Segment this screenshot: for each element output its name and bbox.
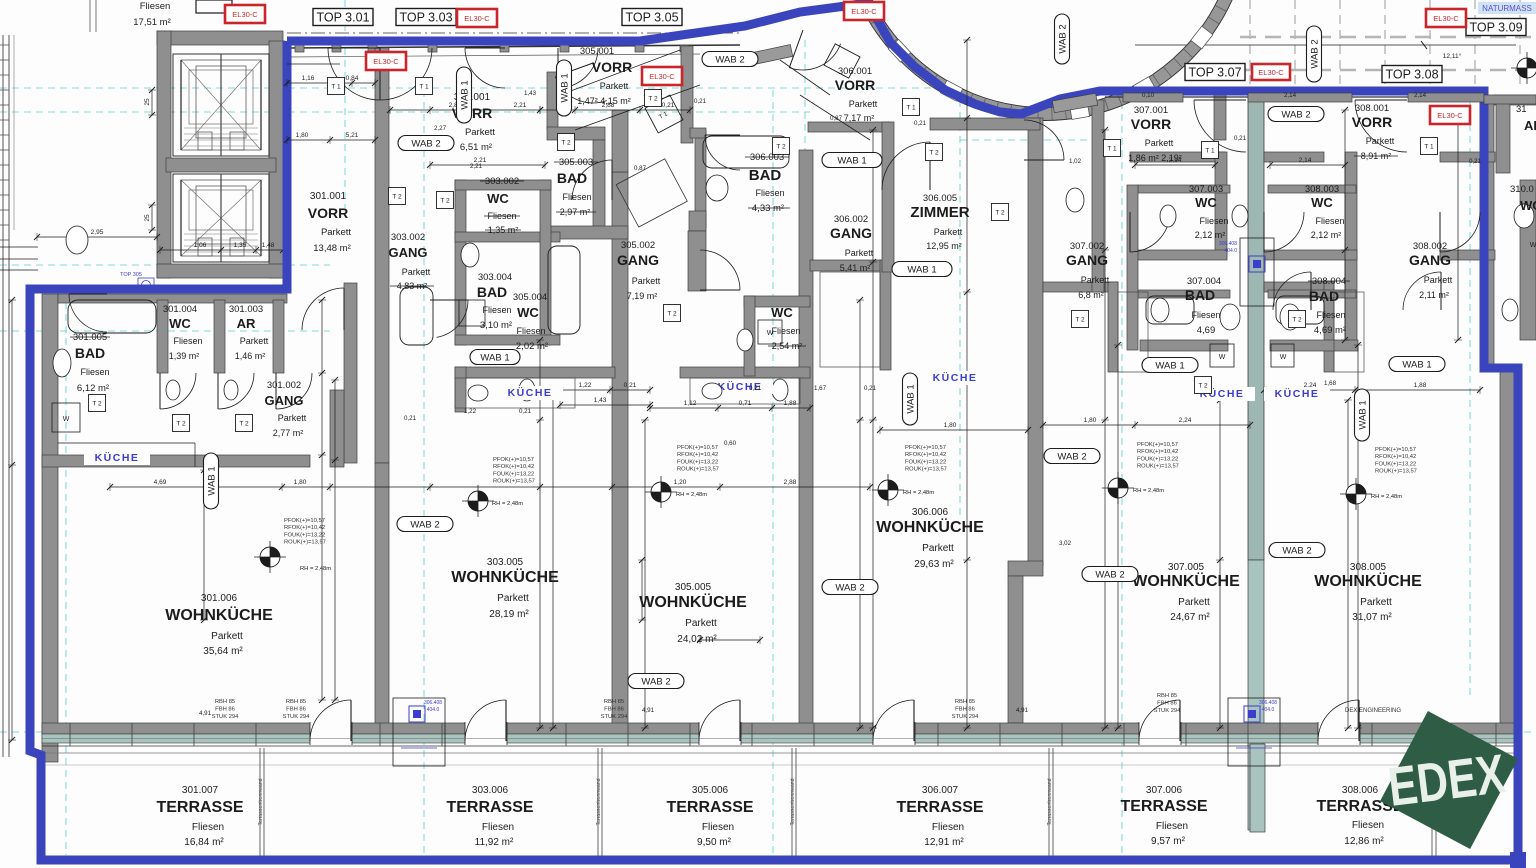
svg-text:TERRASSE: TERRASSE	[156, 799, 243, 816]
svg-text:2,12 m²: 2,12 m²	[1311, 230, 1342, 240]
svg-text:0,21: 0,21	[914, 120, 927, 127]
svg-text:WAB 2: WAB 2	[835, 583, 864, 594]
svg-text:VORR: VORR	[308, 205, 348, 221]
svg-text:Fliesen: Fliesen	[1352, 820, 1384, 831]
svg-text:RFOK(+)=10,42: RFOK(+)=10,42	[1137, 449, 1178, 455]
svg-text:RFOK(+)=10,42: RFOK(+)=10,42	[493, 464, 534, 470]
svg-text:Parkett: Parkett	[685, 618, 717, 629]
svg-text:12,95 m²: 12,95 m²	[926, 241, 962, 251]
svg-text:9,50 m²: 9,50 m²	[697, 837, 732, 848]
307 area walls	[1092, 100, 1104, 292]
svg-text:RFOK(+)=10,42: RFOK(+)=10,42	[284, 525, 325, 531]
svg-text:WC: WC	[169, 316, 191, 331]
svg-text:Fliesen: Fliesen	[192, 822, 224, 833]
svg-text:7,19 m²: 7,19 m²	[627, 291, 658, 301]
svg-text:FOUK(+)=13,22: FOUK(+)=13,22	[1137, 456, 1178, 462]
T boxes	[328, 78, 345, 95]
TOP boxes	[313, 9, 373, 26]
red EL30-C boxes	[225, 5, 265, 23]
svg-text:24,67 m²: 24,67 m²	[1170, 612, 1210, 623]
svg-text:W: W	[63, 416, 70, 423]
upper band partitions 303/305	[455, 180, 466, 345]
svg-text:WOHNKÜCHE: WOHNKÜCHE	[1314, 571, 1422, 590]
window sill lines on terraces	[42, 752, 1516, 754]
svg-text:2,27: 2,27	[434, 125, 447, 132]
svg-text:EL30-C: EL30-C	[649, 72, 675, 81]
svg-text:ROUK(+)=13,57: ROUK(+)=13,57	[1137, 464, 1179, 470]
svg-text:TOP 3.08: TOP 3.08	[1385, 68, 1438, 82]
svg-text:Fliesen: Fliesen	[173, 336, 202, 346]
big circular building arc top center	[846, 0, 1244, 114]
svg-text:301.006: 301.006	[201, 593, 238, 604]
svg-text:0,84: 0,84	[346, 75, 359, 82]
svg-text:6,8 m²: 6,8 m²	[1078, 290, 1104, 300]
svg-text:RBH 85: RBH 85	[215, 699, 235, 705]
306 area walls	[690, 128, 706, 138]
svg-text:Fliesen: Fliesen	[1156, 821, 1188, 832]
svg-text:4,91: 4,91	[199, 710, 212, 717]
svg-text:305.003: 305.003	[559, 157, 593, 168]
svg-text:2,12 m²: 2,12 m²	[1195, 230, 1226, 240]
light gray dashed grid top right (upper storey)	[1249, 0, 1251, 88]
svg-text:TOP 3.07: TOP 3.07	[1188, 66, 1241, 80]
svg-text:3,10 m²: 3,10 m²	[480, 320, 512, 331]
svg-text:Fliesen: Fliesen	[140, 1, 171, 12]
svg-text:25: 25	[144, 98, 151, 106]
svg-text:1,80: 1,80	[1084, 417, 1097, 424]
svg-text:1,22: 1,22	[464, 408, 477, 415]
svg-text:TERRASSE: TERRASSE	[666, 799, 753, 816]
svg-text:4,91: 4,91	[642, 707, 655, 714]
svg-text:1,68: 1,68	[1324, 380, 1337, 387]
svg-text:Fliesen: Fliesen	[932, 822, 964, 833]
svg-text:1,88: 1,88	[1414, 382, 1427, 389]
svg-text:WOHNKÜCHE: WOHNKÜCHE	[876, 517, 984, 536]
svg-text:4,69: 4,69	[154, 479, 167, 486]
svg-text:WAB 2: WAB 2	[1281, 110, 1310, 121]
svg-text:5,41 m²: 5,41 m²	[840, 263, 871, 273]
svg-text:FOUK(+)=13,22: FOUK(+)=13,22	[493, 471, 534, 477]
svg-text:Terrassentrennwand: Terrassentrennwand	[258, 778, 264, 825]
svg-text:FBH 86: FBH 86	[1157, 701, 1177, 707]
svg-text:404.0: 404.0	[1224, 248, 1237, 254]
svg-text:STUK 294: STUK 294	[601, 714, 629, 720]
svg-text:6,51 m²: 6,51 m²	[460, 142, 492, 153]
svg-text:305.004: 305.004	[513, 292, 547, 303]
svg-text:GANG: GANG	[265, 393, 304, 408]
svg-text:Parkett: Parkett	[240, 336, 269, 346]
svg-text:AR: AR	[237, 316, 256, 331]
svg-text:VORR: VORR	[1352, 114, 1392, 130]
svg-text:Parkett: Parkett	[845, 248, 874, 258]
svg-text:Fliesen: Fliesen	[1315, 216, 1344, 226]
svg-text:306.007: 306.007	[922, 785, 959, 796]
svg-text:WAB 2: WAB 2	[411, 139, 440, 150]
unit entry doors top	[328, 48, 380, 100]
svg-text:WC: WC	[487, 191, 509, 206]
svg-text:303.005: 303.005	[487, 557, 524, 568]
svg-text:307.001: 307.001	[1134, 105, 1168, 116]
svg-text:2,21: 2,21	[470, 163, 483, 170]
svg-text:2,02 m²: 2,02 m²	[516, 341, 548, 352]
svg-text:2,24: 2,24	[1179, 417, 1192, 424]
svg-text:307.003: 307.003	[1189, 184, 1223, 195]
long dimension lines vertical	[321, 300, 323, 700]
svg-text:KÜCHE: KÜCHE	[933, 371, 978, 384]
svg-text:13,48 m²: 13,48 m²	[313, 243, 351, 254]
svg-text:RBH 85: RBH 85	[955, 699, 975, 705]
svg-text:KÜCHE: KÜCHE	[508, 386, 553, 399]
svg-text:ZIMMER: ZIMMER	[910, 204, 969, 221]
svg-text:35,64 m²: 35,64 m²	[203, 646, 243, 657]
svg-text:303.002: 303.002	[391, 232, 425, 243]
NATURMASSE highlight top right	[1478, 2, 1536, 14]
svg-text:WAB 1: WAB 1	[480, 353, 509, 364]
svg-text:308.003: 308.003	[1305, 184, 1339, 195]
svg-text:RFOK(+)=10,42: RFOK(+)=10,42	[905, 452, 946, 458]
svg-text:W: W	[1530, 242, 1536, 249]
svg-text:Fliesen: Fliesen	[482, 822, 514, 833]
svg-text:VORR: VORR	[592, 59, 632, 75]
svg-text:0,60: 0,60	[724, 440, 737, 447]
svg-text:Parkett: Parkett	[1424, 275, 1453, 285]
svg-text:4,33 m²: 4,33 m²	[752, 203, 784, 214]
svg-text:301.003: 301.003	[229, 304, 263, 315]
WAB stadium labels	[398, 136, 454, 151]
svg-text:RFOK(+)=10,42: RFOK(+)=10,42	[677, 452, 718, 458]
svg-text:2,88: 2,88	[784, 479, 797, 486]
svg-text:NATURMASS: NATURMASS	[1482, 4, 1532, 13]
svg-text:Fliesen: Fliesen	[1199, 216, 1228, 226]
svg-text:301.004: 301.004	[163, 304, 197, 315]
svg-text:Parkett: Parkett	[600, 81, 629, 91]
svg-text:TERRASSE: TERRASSE	[446, 799, 533, 816]
svg-text:RH = 2,48m: RH = 2,48m	[492, 501, 523, 507]
svg-text:0,21: 0,21	[624, 382, 637, 389]
svg-text:T 1: T 1	[419, 84, 429, 91]
svg-text:1,47² 4,15 m²: 1,47² 4,15 m²	[577, 96, 631, 106]
svg-text:WAB 1: WAB 1	[207, 466, 218, 495]
svg-text:WAB 2: WAB 2	[410, 520, 439, 531]
svg-text:Parkett: Parkett	[465, 127, 495, 138]
svg-text:WAB 1: WAB 1	[1155, 361, 1184, 372]
svg-text:Parkett: Parkett	[1145, 138, 1174, 148]
svg-text:Parkett: Parkett	[934, 227, 963, 237]
svg-text:FOUK(+)=13,22: FOUK(+)=13,22	[1375, 461, 1416, 467]
svg-text:ROUK(+)=13,57: ROUK(+)=13,57	[284, 540, 326, 546]
svg-text:303.004: 303.004	[478, 272, 512, 283]
svg-text:0,21: 0,21	[519, 408, 532, 415]
angled gray wall chips along curve + right flat wall	[747, 45, 793, 66]
svg-text:301.002: 301.002	[267, 380, 301, 391]
svg-text:307.002: 307.002	[1070, 241, 1104, 252]
svg-text:6,12 m²: 6,12 m²	[77, 383, 109, 394]
svg-text:0,71: 0,71	[739, 400, 752, 407]
svg-text:WC: WC	[517, 305, 539, 320]
svg-text:24,02 m²: 24,02 m²	[677, 634, 717, 645]
svg-text:TOP 3.09: TOP 3.09	[1469, 21, 1522, 35]
svg-text:RBH 85: RBH 85	[604, 699, 624, 705]
svg-text:GANG: GANG	[617, 252, 659, 268]
svg-text:2,14: 2,14	[1284, 92, 1297, 99]
svg-text:T 1: T 1	[1424, 144, 1434, 151]
svg-text:Fliesen: Fliesen	[80, 367, 109, 377]
svg-text:0,10: 0,10	[1142, 92, 1155, 99]
shaft detail with blue square on wall V8	[1240, 238, 1274, 306]
svg-text:Parkett: Parkett	[922, 543, 954, 554]
svg-text:0,87: 0,87	[830, 115, 843, 122]
svg-text:305.001: 305.001	[580, 46, 614, 57]
svg-text:308.004: 308.004	[1312, 276, 1346, 287]
svg-text:306.408: 306.408	[1259, 700, 1277, 706]
svg-text:Terrassentrennwand: Terrassentrennwand	[1047, 778, 1053, 825]
svg-text:404.0: 404.0	[427, 707, 440, 713]
svg-text:KÜCHE: KÜCHE	[95, 451, 140, 464]
svg-text:Parkett: Parkett	[632, 276, 661, 286]
svg-text:BAD: BAD	[557, 170, 587, 186]
svg-text:Parkett: Parkett	[849, 99, 878, 109]
svg-text:WAB 2: WAB 2	[1282, 546, 1311, 557]
svg-text:BAD: BAD	[1309, 288, 1339, 304]
svg-text:WAB 1: WAB 1	[837, 156, 866, 167]
lift shaft block top-left	[157, 31, 283, 45]
svg-text:T 1: T 1	[1205, 148, 1215, 155]
svg-text:306.006: 306.006	[912, 507, 949, 518]
svg-text:1,22: 1,22	[579, 382, 592, 389]
svg-text:WAB 1: WAB 1	[1358, 400, 1369, 429]
svg-text:WOHNKÜCHE: WOHNKÜCHE	[1132, 571, 1240, 590]
svg-text:1,20: 1,20	[674, 479, 687, 486]
svg-text:RH = 2,48m: RH = 2,48m	[903, 490, 934, 496]
svg-text:5,21: 5,21	[346, 132, 359, 139]
svg-text:FBH 86: FBH 86	[215, 707, 235, 713]
svg-text:TOP 3.01: TOP 3.01	[316, 11, 369, 25]
bottom exterior wall band with windows	[42, 723, 1516, 734]
svg-text:0,21: 0,21	[404, 415, 417, 422]
svg-text:WAB 2: WAB 2	[1095, 570, 1124, 581]
svg-text:301.005: 301.005	[73, 332, 107, 343]
svg-text:4,91: 4,91	[1016, 707, 1029, 714]
svg-text:FBH 86: FBH 86	[955, 707, 975, 713]
svg-text:303.002: 303.002	[485, 176, 519, 187]
svg-text:PFOK(+)=10,57: PFOK(+)=10,57	[677, 445, 718, 451]
svg-text:Parkett: Parkett	[278, 413, 307, 423]
svg-text:T 2: T 2	[776, 144, 786, 151]
svg-text:306.001: 306.001	[838, 66, 872, 77]
staircase left edge	[2, 35, 4, 757]
svg-text:T 2: T 2	[667, 311, 677, 318]
svg-text:1,46 m²: 1,46 m²	[235, 351, 266, 361]
svg-text:Terrassentrennwand: Terrassentrennwand	[596, 778, 602, 825]
svg-text:308.005: 308.005	[1350, 562, 1387, 573]
svg-text:Parkett: Parkett	[1366, 136, 1395, 146]
svg-text:EL30-C: EL30-C	[232, 10, 258, 19]
svg-text:WC: WC	[1311, 195, 1333, 210]
svg-text:WAB 2: WAB 2	[1310, 39, 1321, 68]
svg-text:RH = 2,48m: RH = 2,48m	[1371, 494, 1402, 500]
svg-text:WAB 2: WAB 2	[1058, 24, 1069, 53]
svg-text:T 2: T 2	[929, 150, 939, 157]
svg-text:1,16: 1,16	[302, 75, 315, 82]
svg-text:RBH 85: RBH 85	[286, 699, 306, 705]
svg-text:RH = 2,48m: RH = 2,48m	[300, 566, 331, 572]
svg-text:WOHNKÜCHE: WOHNKÜCHE	[639, 592, 747, 611]
svg-text:T 2: T 2	[1075, 317, 1085, 324]
svg-text:3,02: 3,02	[1059, 540, 1072, 547]
svg-text:2,77 m²: 2,77 m²	[273, 428, 304, 438]
svg-text:TERRASSE: TERRASSE	[896, 799, 983, 816]
svg-text:31: 31	[1516, 104, 1527, 115]
svg-text:1,43: 1,43	[594, 397, 607, 404]
top corridor wall under blue line	[287, 45, 740, 48]
svg-text:EL30-C: EL30-C	[1437, 111, 1463, 120]
svg-text:4,69 m²: 4,69 m²	[1314, 325, 1346, 336]
misc interior doors	[437, 300, 468, 337]
svg-text:WAB 1: WAB 1	[460, 80, 471, 109]
svg-text:11,92 m²: 11,92 m²	[475, 837, 514, 848]
svg-text:306.408: 306.408	[1219, 241, 1237, 247]
svg-text:EL30-C: EL30-C	[851, 7, 877, 16]
svg-text:RFOK(+)=10,42: RFOK(+)=10,42	[1375, 454, 1416, 460]
svg-text:28,19 m²: 28,19 m²	[489, 609, 529, 620]
svg-text:EL30-C: EL30-C	[464, 14, 490, 23]
svg-text:WOHNKÜCHE: WOHNKÜCHE	[451, 567, 559, 586]
svg-text:RBH 85: RBH 85	[1157, 693, 1177, 699]
svg-text:308.006: 308.006	[1342, 785, 1379, 796]
svg-text:BAD: BAD	[1185, 287, 1215, 303]
KÜCHE labels	[84, 451, 150, 465]
svg-text:WAB 2: WAB 2	[1057, 452, 1086, 463]
svg-text:2,11 m²: 2,11 m²	[1419, 290, 1449, 300]
svg-text:T 2: T 2	[1198, 383, 1208, 390]
svg-text:ROUK(+)=13,57: ROUK(+)=13,57	[1375, 469, 1417, 475]
svg-text:306.002: 306.002	[834, 214, 868, 225]
svg-text:WAB 1: WAB 1	[906, 384, 917, 413]
svg-text:FBH 86: FBH 86	[604, 707, 624, 713]
svg-text:RH = 2,48m: RH = 2,48m	[1133, 488, 1164, 494]
svg-text:25: 25	[144, 214, 151, 222]
svg-text:31,07 m²: 31,07 m²	[1352, 612, 1392, 623]
svg-text:ROUK(+)=13,57: ROUK(+)=13,57	[905, 467, 947, 473]
301 interior doors	[160, 373, 196, 409]
right edge rooms beyond blue	[1494, 95, 1536, 105]
svg-text:12,86 m²: 12,86 m²	[1344, 836, 1384, 847]
svg-text:FOUK(+)=13,22: FOUK(+)=13,22	[677, 459, 718, 465]
svg-text:T 1: T 1	[1107, 146, 1117, 153]
svg-text:T 2: T 2	[239, 421, 249, 428]
svg-text:2,14: 2,14	[1299, 157, 1312, 164]
svg-text:305.002: 305.002	[621, 240, 655, 251]
svg-text:STUK 294: STUK 294	[283, 714, 311, 720]
entry vestibule 305/306 angled linework	[616, 159, 687, 227]
svg-text:TOP 3.05: TOP 3.05	[625, 11, 678, 25]
svg-text:WAB 2: WAB 2	[715, 55, 744, 66]
svg-text:4,69: 4,69	[1197, 325, 1216, 336]
svg-text:0,21: 0,21	[662, 102, 675, 109]
horizontal dimension chains	[110, 486, 330, 488]
svg-text:305.006: 305.006	[692, 785, 729, 796]
svg-text:0,21: 0,21	[1234, 135, 1247, 142]
svg-text:12,11°: 12,11°	[1443, 52, 1462, 60]
svg-text:1,88: 1,88	[784, 400, 797, 407]
svg-text:T 1: T 1	[906, 105, 916, 112]
main vertical walls	[375, 48, 389, 463]
svg-text:PFOK(+)=10,57: PFOK(+)=10,57	[493, 457, 534, 463]
svg-text:STUK 294: STUK 294	[952, 714, 980, 720]
svg-text:306.005: 306.005	[923, 193, 957, 204]
svg-text:Parkett: Parkett	[497, 593, 529, 604]
svg-text:Fliesen: Fliesen	[562, 192, 591, 202]
svg-text:DEX ENGINEERING: DEX ENGINEERING	[1345, 708, 1401, 714]
svg-text:1,80: 1,80	[296, 132, 309, 139]
svg-text:2,21: 2,21	[514, 102, 527, 109]
svg-text:12,91 m²: 12,91 m²	[924, 837, 964, 848]
svg-text:WAB 1: WAB 1	[560, 73, 571, 102]
svg-text:EL30-C: EL30-C	[373, 57, 399, 66]
svg-text:307.004: 307.004	[1187, 276, 1221, 287]
svg-text:W: W	[1219, 354, 1226, 361]
svg-text:ROUK(+)=13,57: ROUK(+)=13,57	[493, 479, 535, 485]
svg-text:KÜCHE: KÜCHE	[1275, 387, 1320, 400]
svg-text:EL30-C: EL30-C	[1433, 14, 1459, 23]
svg-text:GANG: GANG	[1409, 252, 1451, 268]
svg-text:301.007: 301.007	[182, 785, 219, 796]
svg-text:1,86 m² 2,19²: 1,86 m² 2,19²	[1128, 153, 1182, 163]
svg-text:307.005: 307.005	[1168, 562, 1205, 573]
svg-text:0,21: 0,21	[694, 98, 707, 105]
svg-text:T 2: T 2	[1292, 317, 1302, 324]
svg-text:AR: AR	[1524, 118, 1536, 133]
svg-text:GANG: GANG	[1066, 252, 1108, 268]
svg-text:301.001: 301.001	[310, 191, 347, 202]
svg-text:9,57 m²: 9,57 m²	[1151, 836, 1186, 847]
svg-text:VORR: VORR	[1131, 116, 1171, 132]
svg-text:Fliesen: Fliesen	[755, 188, 784, 198]
teal axis grid	[0, 87, 940, 89]
svg-text:T 2: T 2	[176, 421, 186, 428]
svg-text:310.0: 310.0	[1510, 184, 1534, 195]
svg-text:2,14: 2,14	[1414, 92, 1427, 99]
svg-text:Fliesen: Fliesen	[1316, 310, 1345, 320]
svg-text:404.0: 404.0	[1262, 707, 1275, 713]
svg-text:308.001: 308.001	[1355, 103, 1389, 114]
left outer wall + 301 room partitions	[42, 294, 58, 762]
svg-text:WOHNKÜCHE: WOHNKÜCHE	[165, 605, 273, 624]
svg-text:WAB 1: WAB 1	[1402, 360, 1431, 371]
svg-text:FOUK(+)=13,22: FOUK(+)=13,22	[284, 532, 325, 538]
svg-text:BAD: BAD	[749, 167, 782, 184]
svg-text:FOUK(+)=13,22: FOUK(+)=13,22	[905, 459, 946, 465]
svg-text:PFOK(+)=10,57: PFOK(+)=10,57	[905, 445, 946, 451]
svg-text:TOP 3.03: TOP 3.03	[399, 11, 452, 25]
svg-text:GANG: GANG	[830, 225, 872, 241]
svg-text:1,35: 1,35	[234, 242, 247, 249]
svg-text:Fliesen: Fliesen	[702, 822, 734, 833]
svg-text:T 1: T 1	[331, 84, 341, 91]
svg-text:Fliesen: Fliesen	[516, 326, 545, 336]
svg-text:WC: WC	[771, 305, 793, 320]
EDEX logo	[1380, 711, 1518, 849]
svg-text:308.002: 308.002	[1413, 241, 1447, 252]
svg-text:STUK 294: STUK 294	[1154, 708, 1182, 714]
svg-text:1,48: 1,48	[262, 242, 275, 249]
svg-text:Parkett: Parkett	[321, 227, 351, 238]
svg-text:T 2: T 2	[561, 140, 571, 147]
svg-text:WAB 1: WAB 1	[907, 265, 936, 276]
terrace divider walls	[259, 748, 261, 856]
svg-text:305.005: 305.005	[675, 582, 712, 593]
svg-text:1,80: 1,80	[294, 479, 307, 486]
